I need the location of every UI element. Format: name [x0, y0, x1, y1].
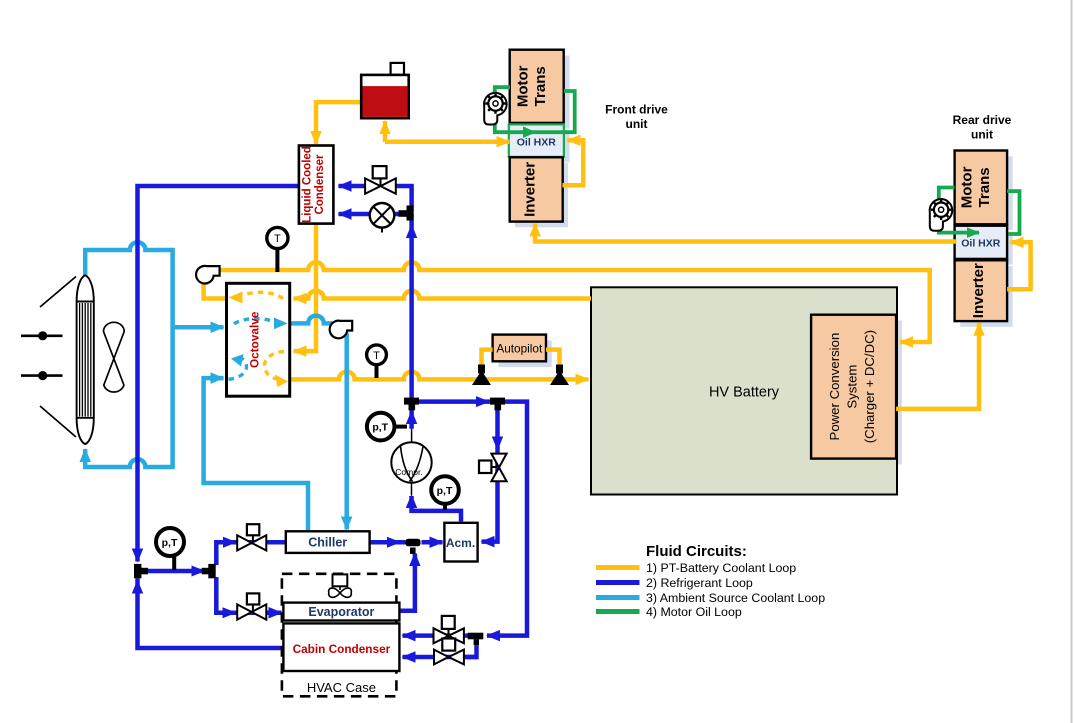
svg-text:p,T: p,T: [372, 422, 388, 434]
svg-text:4) Motor Oil Loop: 4) Motor Oil Loop: [646, 605, 742, 619]
svg-text:T: T: [373, 350, 380, 362]
svg-text:Fluid Circuits:: Fluid Circuits:: [646, 543, 747, 560]
svg-text:Oil HXR: Oil HXR: [961, 237, 1001, 249]
svg-text:System: System: [845, 365, 860, 409]
svg-text:Trans: Trans: [976, 167, 993, 207]
svg-text:Motor: Motor: [959, 166, 976, 208]
svg-text:Evaporator: Evaporator: [308, 605, 374, 619]
svg-text:unit: unit: [626, 117, 648, 131]
svg-text:Chiller: Chiller: [308, 536, 347, 550]
svg-text:Inverter: Inverter: [970, 263, 987, 318]
svg-text:Inverter: Inverter: [522, 162, 539, 217]
svg-text:Condenser: Condenser: [314, 154, 326, 215]
svg-text:p,T: p,T: [437, 485, 453, 497]
svg-text:Liquid Cooled: Liquid Cooled: [302, 146, 314, 223]
svg-text:Rear drive: Rear drive: [953, 113, 1012, 127]
svg-text:p,T: p,T: [162, 537, 178, 549]
svg-text:Acm.: Acm.: [446, 536, 475, 550]
svg-text:Trans: Trans: [532, 66, 549, 106]
svg-text:3) Ambient Source Coolant Loop: 3) Ambient Source Coolant Loop: [646, 591, 825, 605]
svg-text:(Charger + DC/DC): (Charger + DC/DC): [862, 330, 877, 443]
svg-text:1) PT-Battery Coolant Loop: 1) PT-Battery Coolant Loop: [646, 561, 796, 575]
svg-text:Motor: Motor: [515, 65, 532, 107]
svg-text:Autopilot: Autopilot: [496, 341, 543, 355]
svg-text:Cabin Condenser: Cabin Condenser: [293, 642, 391, 656]
svg-text:unit: unit: [971, 128, 993, 142]
svg-text:HVAC Case: HVAC Case: [307, 680, 376, 695]
svg-text:HV Battery: HV Battery: [709, 384, 780, 400]
svg-text:Front drive: Front drive: [605, 103, 668, 117]
svg-text:Compr.: Compr.: [395, 467, 422, 477]
svg-text:Power Conversion: Power Conversion: [827, 333, 842, 441]
svg-text:T: T: [274, 233, 281, 245]
svg-text:2) Refrigerant Loop: 2) Refrigerant Loop: [646, 576, 753, 590]
svg-text:Oil HXR: Oil HXR: [517, 137, 557, 149]
svg-text:Octovalve: Octovalve: [248, 311, 262, 368]
